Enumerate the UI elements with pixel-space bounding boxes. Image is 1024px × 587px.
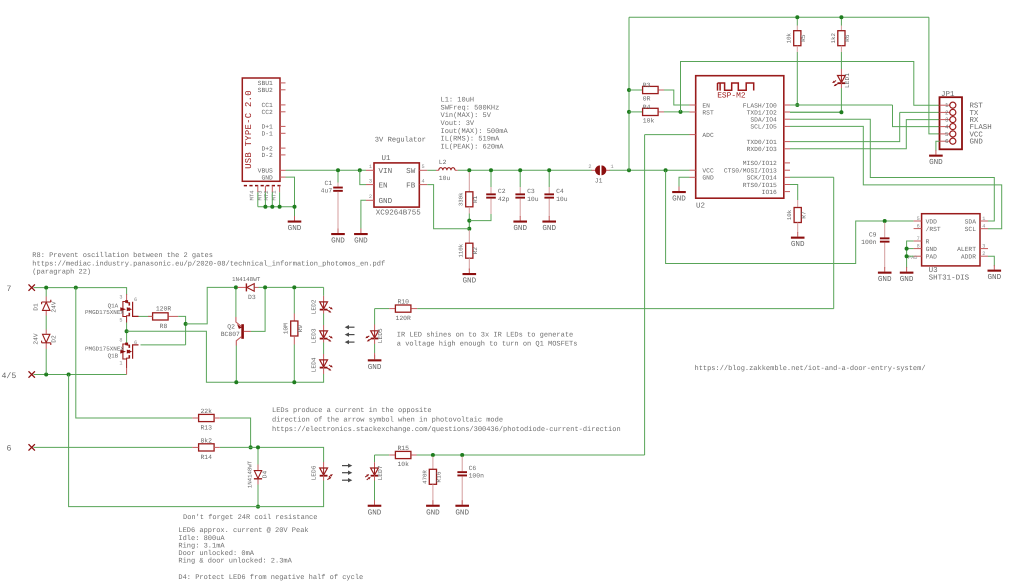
wire SCK net long run from R10 to right xyxy=(417,308,834,310)
wire LED7 to R15 xyxy=(375,454,390,456)
capacitor C6 100n xyxy=(461,457,463,472)
wire ADC pin row xyxy=(645,134,690,136)
junction net6 at D4 xyxy=(256,445,260,449)
wire SCL net to U3 xyxy=(790,126,1002,228)
svg-text:VIN: VIN xyxy=(379,168,393,176)
svg-text:SBU2: SBU2 xyxy=(258,87,273,94)
pin TXD1/IO2 of U2 xyxy=(784,111,790,113)
resistor R15 10k xyxy=(389,454,395,456)
ground for USB xyxy=(288,216,302,233)
wire JP1 pin6 to ground xyxy=(936,141,940,151)
pin GND 2 of U1 xyxy=(366,199,374,201)
wire source row to down leg xyxy=(127,331,324,382)
wire D1-D2 chain vertical xyxy=(45,289,47,297)
wire Q1A gate to R8 xyxy=(139,315,153,317)
svg-text:GND: GND xyxy=(878,275,892,284)
svg-text:330k: 330k xyxy=(458,192,465,206)
svg-text:CTS0/MOSI/IO13: CTS0/MOSI/IO13 xyxy=(724,168,777,175)
pin RTS0/IO15 of U2 xyxy=(784,184,790,186)
svg-text:1: 1 xyxy=(369,164,372,170)
module U2 ESP-M2 xyxy=(696,76,784,199)
svg-text:MT2: MT2 xyxy=(263,190,270,200)
pin SCK/IO14 of U2 xyxy=(784,176,790,178)
svg-text:10u: 10u xyxy=(556,196,568,203)
svg-text:2: 2 xyxy=(945,109,949,116)
svg-text:SW: SW xyxy=(406,167,416,176)
resistor R8 120R xyxy=(153,313,169,320)
pin IO16 of U2 xyxy=(784,191,790,193)
svg-text:MT1: MT1 xyxy=(271,190,278,201)
svg-text:/RST: /RST xyxy=(926,226,941,233)
svg-text:Iout(MAX): 500mA: Iout(MAX): 500mA xyxy=(441,127,509,136)
pin EN 3 of U1 xyxy=(366,184,374,186)
wire Q2 emitter up to D3 row xyxy=(235,289,237,317)
svg-text:1k2: 1k2 xyxy=(830,32,837,43)
svg-text:120R: 120R xyxy=(396,315,412,322)
pin 3 RX of JP1 xyxy=(940,119,950,121)
wire R13 right to net6 row xyxy=(220,418,251,447)
pin MISO/IO12 of U2 xyxy=(784,162,790,164)
svg-text:4u7: 4u7 xyxy=(321,188,333,195)
light arrows from LED6 to LED7 xyxy=(342,465,348,467)
svg-text:GND: GND xyxy=(672,195,686,204)
svg-text:D-1: D-1 xyxy=(261,131,273,138)
wire Q2 collector down xyxy=(235,346,237,383)
svg-text:direction of the arrow symbol: direction of the arrow symbol when in ph… xyxy=(272,416,503,425)
svg-text:42p: 42p xyxy=(498,196,510,203)
wire C2 bottom join xyxy=(469,214,491,221)
wire MT pins to ground bus xyxy=(257,192,259,206)
svg-text:10k: 10k xyxy=(786,209,793,220)
junction on net7 at D1 xyxy=(44,286,48,290)
svg-text:EN: EN xyxy=(379,182,388,190)
svg-text:LED7: LED7 xyxy=(377,465,384,480)
junction R1 tap xyxy=(467,168,471,172)
svg-text:R16: R16 xyxy=(436,471,443,482)
svg-text:LED2: LED2 xyxy=(310,299,317,314)
svg-text:C4: C4 xyxy=(556,188,564,195)
junction net4/5 to bottom loop xyxy=(67,373,71,377)
svg-text:LEDs produce a current in the: LEDs produce a current in the opposite xyxy=(272,406,432,415)
junction Q2 collector on bottom row xyxy=(234,380,238,384)
svg-text:R1: R1 xyxy=(472,195,479,203)
wire FLASH net to JP1 pin4 xyxy=(790,104,893,106)
svg-text:22k: 22k xyxy=(200,408,212,415)
junction C3 tap xyxy=(518,168,522,172)
svg-text:FLASH/IO0: FLASH/IO0 xyxy=(743,102,777,109)
ground for R7 xyxy=(791,232,805,249)
wire down to LED2 xyxy=(323,287,325,295)
svg-text:4/5: 4/5 xyxy=(2,372,17,381)
pin SDA 1 of U3 xyxy=(980,220,988,222)
ground for C9 xyxy=(878,267,892,284)
wire R4 to ESP RST xyxy=(664,111,690,113)
resistor R16 470R xyxy=(432,457,434,470)
ground for JP1 xyxy=(929,150,943,167)
svg-text:10u: 10u xyxy=(439,175,451,182)
wire D3 cathode row with branches xyxy=(259,286,324,288)
svg-text:JP1: JP1 xyxy=(941,91,955,99)
svg-text:6: 6 xyxy=(134,340,137,346)
wire ADDR to ground xyxy=(988,256,994,266)
wire gate node up-over to D3 row xyxy=(186,287,236,324)
svg-text:6: 6 xyxy=(7,445,12,454)
svg-text:GND: GND xyxy=(379,197,393,206)
pin ALERT 3 of U3 xyxy=(980,248,988,250)
pin 5 VCC of JP1 xyxy=(940,133,950,135)
ground for C3 xyxy=(513,216,527,233)
wire R13 branch vertical from net7 xyxy=(76,288,193,418)
pin 6 GND of JP1 xyxy=(940,140,950,142)
svg-text:GND: GND xyxy=(542,224,556,233)
svg-text:4: 4 xyxy=(422,178,425,184)
pin SDA/IO4 of U2 xyxy=(784,118,790,120)
junction D4 bottom on return row xyxy=(256,505,260,509)
junction RST node xyxy=(679,110,683,114)
svg-text:ESP-M2: ESP-M2 xyxy=(717,91,746,100)
svg-text:5: 5 xyxy=(917,216,920,222)
svg-text:GND: GND xyxy=(354,237,368,246)
svg-text:R7: R7 xyxy=(800,211,807,219)
svg-text:RTS0/IO15: RTS0/IO15 xyxy=(743,182,777,189)
zener diode D1 24V xyxy=(42,300,51,311)
pin CTS0/MOSI/IO13 of U2 xyxy=(784,169,790,171)
svg-text:RXD0/IO3: RXD0/IO3 xyxy=(747,146,777,153)
resistor R4 10k xyxy=(629,111,643,113)
IR led LED2 xyxy=(323,296,325,302)
wire SDA net to U3 xyxy=(790,119,994,221)
svg-text:R: R xyxy=(926,238,930,245)
ground for C4 xyxy=(542,216,556,233)
pin MT3 of USB connector xyxy=(264,186,266,193)
junction net4/5 at D2 xyxy=(44,373,48,377)
wire EN branch xyxy=(360,170,366,184)
pin 2 TX of JP1 xyxy=(940,111,950,113)
junction C1 tap xyxy=(336,168,340,172)
svg-text:D2: D2 xyxy=(51,335,58,343)
svg-text:470R: 470R xyxy=(421,470,428,484)
junction on net7 to R13 branch xyxy=(74,286,78,290)
junction C9 tap xyxy=(883,219,887,223)
junction VDD-run branch xyxy=(664,168,668,172)
svg-text:0R: 0R xyxy=(643,96,651,103)
resistor R10 120R xyxy=(375,308,390,310)
junction MT1 on bus xyxy=(278,205,282,209)
svg-text:D-2: D-2 xyxy=(261,152,273,159)
svg-text:5: 5 xyxy=(119,317,122,323)
svg-text:5: 5 xyxy=(422,164,425,170)
IR led LED4 xyxy=(320,359,328,367)
wire U3 R/GND/PAD to ground xyxy=(907,241,914,268)
svg-text:R15: R15 xyxy=(397,445,409,452)
node 6 unconnected pin marker xyxy=(29,444,35,450)
svg-text:(paragraph 22): (paragraph 22) xyxy=(32,267,91,276)
junction U3 PAD pin xyxy=(905,254,909,258)
svg-text:C9: C9 xyxy=(869,232,877,239)
svg-text:GND: GND xyxy=(987,273,1001,282)
svg-text:MT4: MT4 xyxy=(249,190,256,201)
svg-text:SDA: SDA xyxy=(965,218,977,225)
svg-text:SWFreq: 500KHz: SWFreq: 500KHz xyxy=(441,104,500,112)
wire FB to divider xyxy=(427,185,469,229)
svg-text:SCL: SCL xyxy=(965,226,977,233)
wire SW to L2 xyxy=(427,169,436,171)
svg-text:1N4148WT: 1N4148WT xyxy=(232,276,261,283)
junction gate node xyxy=(184,322,188,326)
svg-text:1: 1 xyxy=(982,216,985,222)
wire vertical to top rail xyxy=(628,17,630,170)
svg-text:BC807: BC807 xyxy=(221,331,240,338)
resistor R2 110k xyxy=(468,230,470,243)
wire ADC net row xyxy=(417,454,645,456)
svg-text:GND: GND xyxy=(331,237,345,246)
svg-text:C3: C3 xyxy=(527,188,535,195)
wire VDD run from 3V rail to U3 xyxy=(666,170,914,263)
pin EN of U2 xyxy=(690,104,696,106)
svg-text:D1: D1 xyxy=(33,303,40,311)
svg-text:8: 8 xyxy=(917,243,920,249)
svg-text:7: 7 xyxy=(7,285,12,294)
svg-text:SCK/IO14: SCK/IO14 xyxy=(747,175,777,182)
svg-text:3: 3 xyxy=(982,243,985,249)
transistor Q2 BC807 xyxy=(236,317,251,346)
svg-text:2: 2 xyxy=(982,251,985,257)
junction R16 top xyxy=(431,453,435,457)
header JP1 xyxy=(940,97,963,149)
pin GND of U2 xyxy=(690,176,696,178)
ground for LED7 xyxy=(368,500,382,517)
svg-text:RST: RST xyxy=(702,109,714,116)
svg-text:R13: R13 xyxy=(200,425,212,432)
svg-text:ADDR: ADDR xyxy=(961,254,976,261)
wire 3V rail J1 to ESP VCC xyxy=(610,169,690,171)
svg-text:L1: 10uH: L1: 10uH xyxy=(441,97,475,105)
svg-text:U3: U3 xyxy=(929,266,939,275)
svg-text:TXD1/IO2: TXD1/IO2 xyxy=(747,109,777,116)
svg-text:GND: GND xyxy=(368,363,382,372)
resistor R14 8k2 xyxy=(199,444,215,451)
svg-text:6: 6 xyxy=(917,223,920,229)
svg-text:C6: C6 xyxy=(469,465,477,472)
junction R13 leg joins net6 xyxy=(249,445,253,449)
capacitor C1 4u7 xyxy=(337,172,339,183)
svg-text:GND: GND xyxy=(426,508,440,517)
svg-text:24V: 24V xyxy=(51,301,58,312)
wire Q1A source to Q1B drain and over xyxy=(126,323,128,344)
pin VDD 5 of U3 xyxy=(914,220,922,222)
svg-text:10M: 10M xyxy=(283,323,290,334)
wire Q2 base to D3 row xyxy=(251,289,265,331)
svg-text:110k: 110k xyxy=(458,243,465,257)
svg-text:CC2: CC2 xyxy=(261,109,273,116)
junction usb gnd bus xyxy=(293,205,297,209)
svg-text:1: 1 xyxy=(945,102,949,109)
resistor R13 22k xyxy=(199,414,215,421)
svg-text:U2: U2 xyxy=(696,202,705,211)
svg-text:Q1B: Q1B xyxy=(108,353,119,360)
junction MT2 on bus xyxy=(270,205,274,209)
wire LED1 to TXD1 row xyxy=(790,88,841,112)
svg-text:R9: R9 xyxy=(297,325,304,333)
svg-text:6: 6 xyxy=(134,297,137,303)
svg-text:6: 6 xyxy=(945,138,949,145)
ground for C6 xyxy=(455,500,469,517)
svg-text:R8: R8 xyxy=(160,323,168,330)
pin ADC of U2 xyxy=(690,134,696,136)
led LED6 xyxy=(323,462,325,468)
pin R 7 of U3 xyxy=(914,240,922,242)
svg-text:10k: 10k xyxy=(397,461,409,468)
svg-text:100n: 100n xyxy=(469,473,485,480)
pin MT1 of USB connector xyxy=(279,186,281,193)
junction FB node xyxy=(467,227,471,231)
junction R6 top xyxy=(839,15,843,19)
capacitor C4 10u xyxy=(548,172,550,187)
svg-text:5: 5 xyxy=(945,131,949,138)
wire TXD0 to JP1 pin2 riser xyxy=(790,112,900,141)
svg-text:GND: GND xyxy=(900,275,914,284)
IR led LED3 xyxy=(320,330,328,338)
svg-text:GND: GND xyxy=(702,175,714,182)
wire net 6 row xyxy=(34,446,193,448)
svg-text:FB: FB xyxy=(406,182,416,190)
pin ADDR 2 of U3 xyxy=(980,255,988,257)
svg-text:U1: U1 xyxy=(382,155,392,163)
svg-text:10k: 10k xyxy=(786,32,793,43)
junction Q1A source xyxy=(125,329,129,333)
svg-text:R14: R14 xyxy=(200,454,212,461)
svg-text:Vin(MAX): 5V: Vin(MAX): 5V xyxy=(441,111,492,120)
svg-text:GND: GND xyxy=(455,508,469,517)
pin VIN 1 of U1 xyxy=(366,169,374,171)
wire U1 GND pin to ground xyxy=(361,200,366,228)
pin VCC of U2 xyxy=(690,169,696,171)
junction R1-C2 bottom xyxy=(467,219,471,223)
pin FLASH/IO0 of U2 xyxy=(784,104,790,106)
svg-text:1: 1 xyxy=(119,361,122,367)
svg-text:D4: Protect LED6 from negative: D4: Protect LED6 from negative half of c… xyxy=(178,573,363,582)
svg-text:https://mediac.industry.panaso: https://mediac.industry.panasonic.eu/p/2… xyxy=(32,259,385,268)
svg-text:GND: GND xyxy=(970,139,984,147)
svg-text:PMGD175XNEX: PMGD175XNEX xyxy=(85,309,124,316)
svg-text:IL(PEAK): 620mA: IL(PEAK): 620mA xyxy=(441,142,505,151)
sensor U3 SHT31-DIS xyxy=(922,214,980,266)
svg-text:GND: GND xyxy=(368,508,382,517)
svg-text:Vout: 3V: Vout: 3V xyxy=(441,120,475,128)
junction EN tap xyxy=(358,168,362,172)
pin RXD0/IO3 of U2 xyxy=(784,148,790,150)
wire R8 right to gates junction xyxy=(178,316,185,345)
pin SW 5 of U1 xyxy=(419,169,427,171)
svg-text:LED5: LED5 xyxy=(377,328,384,343)
svg-text:1N4148WT: 1N4148WT xyxy=(247,460,254,488)
wire SCK vertical xyxy=(833,177,835,308)
svg-text:10u: 10u xyxy=(527,196,539,203)
photomos Q1B PMGD175XNEX lower (mirrored) xyxy=(119,338,138,368)
svg-text:GND: GND xyxy=(462,277,476,286)
ground for U2 xyxy=(672,187,686,204)
svg-text:LED4: LED4 xyxy=(310,357,317,372)
dashed mounting line of USB connector xyxy=(244,185,282,187)
pin RST of U2 xyxy=(690,111,696,113)
svg-text:XC9264B755: XC9264B755 xyxy=(376,208,422,217)
junction R9 branch xyxy=(292,285,296,289)
connector USB TYPE-C 2.0 xyxy=(242,78,280,181)
inductor L2 10u xyxy=(436,169,439,171)
svg-text:IR LED shines on to 3x IR LEDs: IR LED shines on to 3x IR LEDs to genera… xyxy=(397,330,573,339)
wire 3V rail from L2 to J1 xyxy=(458,169,592,171)
svg-text:2: 2 xyxy=(369,194,372,200)
jumper J1 xyxy=(592,169,596,171)
ground for LED5 xyxy=(368,355,382,372)
diode D4 1N4148WT xyxy=(257,449,259,465)
svg-text:D3: D3 xyxy=(248,294,256,301)
wire R3 to ESP EN xyxy=(664,90,690,105)
wire VBUS to U1 VIN xyxy=(286,169,367,171)
svg-text:3: 3 xyxy=(945,117,949,124)
resistor R6 1k2 xyxy=(840,19,842,26)
junction R3 tap xyxy=(627,88,631,92)
wire SCK row at ESP xyxy=(790,176,834,178)
svg-text:Ring & door unlocked: 2.3mA: Ring & door unlocked: 2.3mA xyxy=(178,557,292,566)
junction C2 tap xyxy=(489,168,493,172)
svg-text:MISO/IO12: MISO/IO12 xyxy=(743,160,777,167)
svg-text:IL(RMS): 519mA: IL(RMS): 519mA xyxy=(441,135,501,144)
pin MT4 of USB connector xyxy=(257,186,259,193)
wire top rail xyxy=(629,16,929,18)
svg-text:10k: 10k xyxy=(643,118,655,125)
svg-text:8k2: 8k2 xyxy=(200,438,212,445)
svg-text:L2: L2 xyxy=(439,159,447,166)
wire net 4/5 bottom row xyxy=(34,374,127,376)
pin 4 FLASH of JP1 xyxy=(940,126,950,128)
svg-text:VDD: VDD xyxy=(926,218,938,225)
pin PAD PAD of U3 xyxy=(914,255,922,257)
svg-text:GND: GND xyxy=(288,224,302,233)
wire net6 from R14 to LED6 xyxy=(220,447,324,462)
capacitor C9 100n xyxy=(884,223,886,238)
resistor R3 0R xyxy=(629,89,643,91)
diode D3 1N4148WT pointing left xyxy=(238,286,246,288)
svg-text:GND: GND xyxy=(261,174,273,181)
wire JP1 pin2 segment xyxy=(900,111,940,113)
svg-text:3: 3 xyxy=(119,295,122,301)
junction U3 GND pin xyxy=(905,247,909,251)
svg-text:3: 3 xyxy=(369,178,372,184)
svg-text:R8: Prevent oscillation betwee: R8: Prevent oscillation between the 2 ga… xyxy=(32,251,213,260)
node 4/5 unconnected pin marker xyxy=(29,371,35,377)
svg-text:EN: EN xyxy=(702,102,710,109)
junction C6 top xyxy=(460,453,464,457)
svg-text:Door unlocked: 0mA: Door unlocked: 0mA xyxy=(178,549,254,558)
junction Q2 base branch xyxy=(263,285,267,289)
svg-text:2: 2 xyxy=(588,164,591,170)
wire Q1B gate row xyxy=(141,344,186,346)
svg-text:8: 8 xyxy=(119,338,122,344)
svg-text:GND: GND xyxy=(513,224,527,233)
svg-text:VCC: VCC xyxy=(702,168,714,175)
svg-text:https://electronics.stackexcha: https://electronics.stackexchange.com/qu… xyxy=(272,425,621,434)
pin MT2 of USB connector xyxy=(271,186,273,193)
svg-text:GND: GND xyxy=(791,240,805,249)
svg-text:GND: GND xyxy=(929,158,943,167)
capacitor C3 10u xyxy=(519,172,521,187)
svg-text:SDA/IO4: SDA/IO4 xyxy=(750,117,777,124)
ir emitter LED5 xyxy=(374,310,376,325)
svg-text:PAD: PAD xyxy=(926,254,938,261)
wire net 7 top row xyxy=(34,288,127,295)
pin SCL 4 of U3 xyxy=(980,228,988,230)
